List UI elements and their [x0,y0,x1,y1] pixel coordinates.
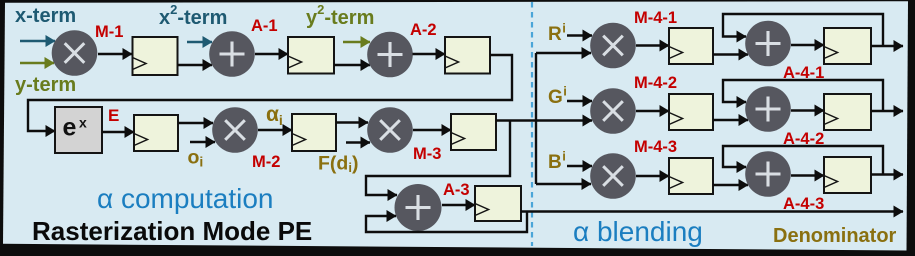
wire register to A-4-2 [713,119,748,121]
adder A-4-1 [745,21,791,67]
wire o_i input arrow [190,141,215,143]
wire x2-term input arrow [187,41,212,44]
register after A-3 [475,186,521,221]
register after M-3 [451,114,496,150]
wire denominator output [521,210,903,212]
adder A-1 [209,31,255,77]
svg-text:Denominator: Denominator [773,225,897,247]
register after A-4-1 [824,28,871,64]
register after A-1 [288,37,334,74]
wire G channel output [871,110,903,112]
wire A-1 to register [255,53,288,55]
wire register to M-3 [336,121,368,123]
wire A-3 feedback [366,212,527,233]
svg-text:M-4-1: M-4-1 [634,9,677,27]
wire register to A-1 [178,64,213,66]
wire G^i input arrow [567,100,592,102]
svg-text:x2-term: x2-term [159,2,227,29]
wire B channel output [871,173,903,175]
adder A-4-3 [745,151,791,197]
svg-text:E: E [108,106,119,125]
svg-text:M-4-2: M-4-2 [634,74,677,92]
multiplier M-4-1 [590,23,636,69]
register after A-2 [445,37,490,74]
wire alpha to M-4-3 [536,183,591,185]
svg-text:M-4-3: M-4-3 [634,138,677,156]
register after M-1 [133,37,178,75]
svg-text:A-4-3: A-4-3 [783,195,824,213]
adder A-3 [395,184,442,231]
wire M-4-3 to register [636,175,669,177]
wire e^x to register [102,131,134,133]
wire A-4-3 to register [791,174,824,176]
wire alpha to M-4-1 [536,52,591,54]
svg-text:Rasterization Mode PE: Rasterization Mode PE [32,216,312,246]
wire R channel output [871,45,903,47]
wire register to A-2 [334,64,370,66]
multiplier M-4-3 [590,153,636,199]
wire B^i input arrow [567,165,592,167]
wire A-3 to register [442,204,475,206]
register after A-4-3 [824,157,871,193]
register after A-4-2 [824,94,871,130]
wire alpha distribution vertical [535,53,537,184]
wire A-4-1 to register [791,44,824,46]
wire x-term input arrow [20,40,55,43]
multiplier M-3 [367,107,413,153]
wire alpha output to M-4-2 [496,119,592,121]
register after M-4-3 [669,158,713,194]
svg-text:x-term: x-term [15,5,76,27]
register after M-4-1 [669,28,713,64]
svg-text:F(di): F(di) [318,153,358,176]
svg-text:y2-term: y2-term [306,2,374,29]
multiplier M-4-2 [590,88,636,134]
wire register to A-4-3 [713,184,748,186]
wire A-4-3 feedback [723,146,883,175]
wire A-4-2 feedback [723,80,883,111]
register after M-4-2 [669,94,713,130]
wire register to M-2 [178,122,213,124]
wire A-4-2 to register [791,109,824,111]
svg-text:A-2: A-2 [410,21,437,39]
wire R^i input arrow [567,34,592,36]
wire M-4-1 to register [636,44,669,46]
svg-text:y-term: y-term [15,74,76,96]
wire alpha branch to A-3 [366,121,510,196]
wire M-4-2 to register [636,110,669,112]
svg-text:α blending: α blending [573,216,703,247]
adder A-2 [367,32,413,78]
wire M-1 to register [98,53,132,55]
adder A-4-2 [745,86,791,132]
wire M-2 to register [258,129,292,131]
exponent block e^x [55,107,102,153]
svg-text:M-2: M-2 [252,153,280,171]
wire register to A-4-1 [713,53,748,55]
wire y-term input arrow [20,62,54,65]
wire y2-term input arrow [343,41,370,44]
svg-text:A-1: A-1 [251,17,278,35]
multiplier M-1 [52,30,98,76]
wire A-2 to register [413,53,446,55]
svg-text:α computation: α computation [97,183,274,214]
multiplier M-2 [212,107,258,153]
svg-text:A-3: A-3 [443,181,470,199]
register after M-2 [292,114,336,151]
register after e^x [134,115,178,151]
dashed section divider [531,2,533,246]
wire from register wrapping to e^x input [28,55,512,131]
wire F(d_i) input arrow [346,141,370,143]
svg-text:x: x [79,115,87,131]
wire M-3 to register [413,129,451,131]
wire A-4-1 feedback [723,14,883,46]
svg-text:e: e [63,114,77,142]
svg-text:M-1: M-1 [95,23,123,41]
svg-text:M-3: M-3 [413,145,441,163]
